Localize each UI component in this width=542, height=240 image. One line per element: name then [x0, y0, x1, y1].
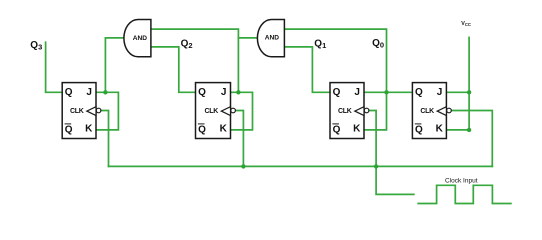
- svg-text:J: J: [86, 87, 92, 98]
- junction FF2 J node: [236, 90, 240, 94]
- flip-flop FF0: [412, 83, 451, 139]
- wire FF0 J to Vcc: [446, 91, 469, 93]
- clock input waveform: [418, 185, 511, 203]
- svg-text:J: J: [221, 87, 227, 98]
- svg-text:Q0: Q0: [372, 38, 384, 50]
- wire Q1 from FF1 Q to AND2 bottom input: [284, 47, 330, 92]
- svg-text:CLK: CLK: [338, 108, 352, 115]
- wire clock rail: [109, 165, 493, 167]
- wire FF3 J-K tie loop: [96, 92, 118, 130]
- flip-flop FF3: [62, 83, 101, 139]
- wire AND1 output to FF3 J: [105, 38, 123, 92]
- svg-text:Q: Q: [65, 124, 73, 135]
- wire FF0 K to Vcc: [446, 129, 469, 131]
- AND gate A1: [124, 20, 151, 57]
- svg-text:Q: Q: [333, 87, 341, 98]
- svg-text:K: K: [436, 123, 444, 134]
- wire FF0 CLK to clock rail: [451, 111, 492, 167]
- junction FF3 J node: [103, 90, 107, 94]
- svg-text:Q1: Q1: [314, 38, 326, 50]
- svg-text:K: K: [220, 123, 228, 134]
- svg-text:Q3: Q3: [30, 40, 42, 52]
- flip-flop FF1: [330, 83, 369, 139]
- junction FF0 J node: [467, 90, 471, 94]
- svg-text:Q: Q: [333, 124, 341, 135]
- wire AND2 output: [238, 37, 256, 39]
- junction clock rail / FF2 CLK: [241, 164, 245, 168]
- wire FF1 CLK to clock rail: [369, 111, 376, 167]
- svg-text:Q: Q: [65, 87, 73, 98]
- svg-text:J: J: [354, 87, 360, 98]
- wire FF3 CLK to clock rail: [101, 111, 109, 167]
- svg-text:Q: Q: [198, 87, 206, 98]
- svg-text:Q: Q: [415, 87, 423, 98]
- wire Q0 net: AND2 top input, down to FF1 J and K: [284, 29, 386, 130]
- svg-text:Q2: Q2: [181, 39, 193, 51]
- svg-text:Clock Input: Clock Input: [445, 177, 478, 184]
- svg-text:K: K: [85, 123, 93, 134]
- flip-flop FF2: [196, 83, 236, 139]
- wire FF2 J-K tie loop: [231, 92, 253, 130]
- svg-text:VCC: VCC: [461, 21, 471, 27]
- wire FF1 J to FF0 Q: [364, 91, 412, 93]
- wire Vcc rail to FF0 J and K: [468, 37, 470, 129]
- wire Q2 from FF2 Q to AND1 bottom input: [151, 47, 196, 92]
- junction FF0 K node: [467, 128, 471, 132]
- junction FF1 J node: [384, 90, 388, 94]
- svg-text:CLK: CLK: [70, 108, 84, 115]
- svg-text:AND: AND: [265, 34, 280, 41]
- wire AND1 top input from AND2 output node: [151, 29, 239, 92]
- wire FF2 CLK to clock rail: [235, 111, 243, 167]
- svg-text:AND: AND: [133, 35, 148, 42]
- svg-text:K: K: [353, 123, 361, 134]
- svg-text:CLK: CLK: [205, 108, 219, 115]
- svg-text:Q: Q: [198, 124, 206, 135]
- junction clock rail / FF1 CLK / clock source: [374, 164, 378, 168]
- wire Q3 stub from FF3 Q output: [46, 42, 63, 92]
- wire clock input branch: [376, 166, 414, 194]
- svg-text:CLK: CLK: [420, 108, 434, 115]
- svg-text:J: J: [437, 87, 443, 98]
- svg-text:Q: Q: [415, 124, 423, 135]
- AND gate A2: [257, 20, 284, 57]
